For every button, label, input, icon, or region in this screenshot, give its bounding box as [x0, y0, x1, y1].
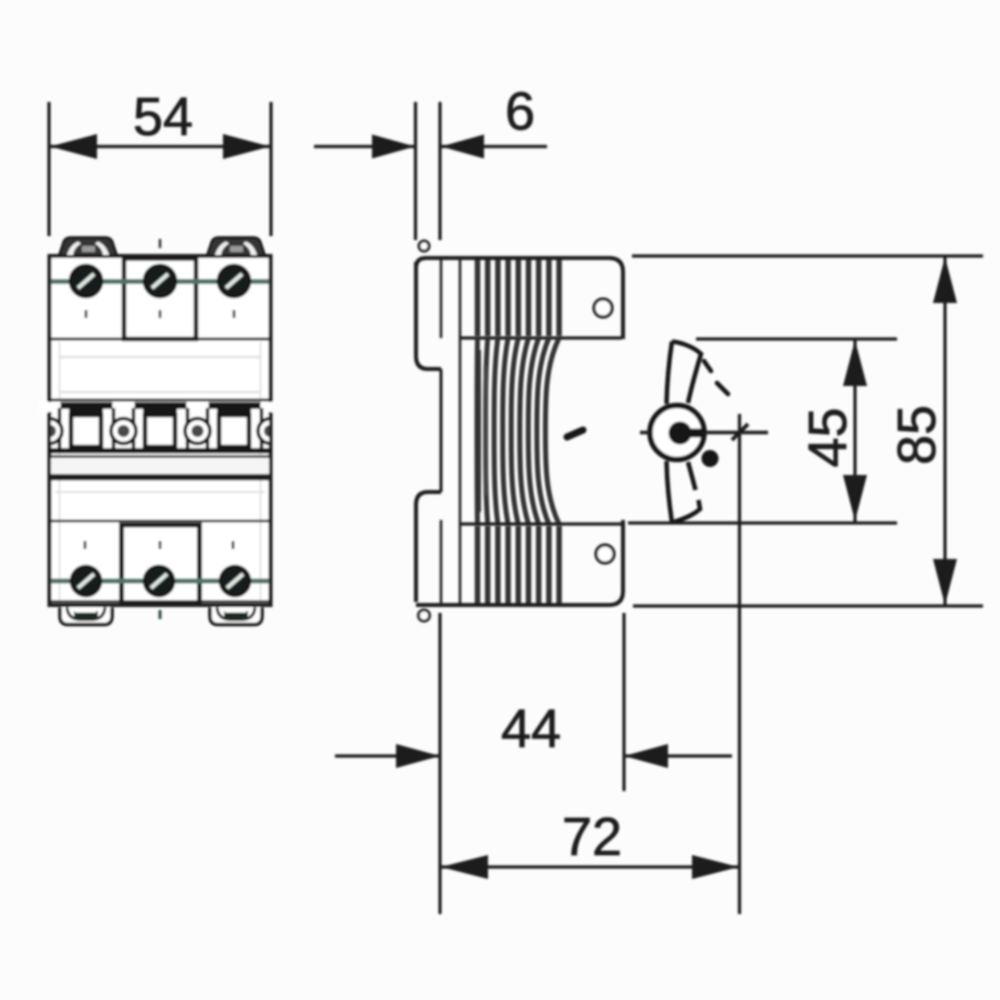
pole divider circle 2: [185, 419, 210, 444]
svg-text:45: 45: [798, 407, 858, 467]
extension line left of 6: [414, 102, 417, 240]
breaker front-view body: [50, 256, 271, 605]
faint inner side lines: [59, 342, 61, 600]
arrowhead left 72: [441, 855, 488, 879]
DIN clip pin bottom: [419, 610, 430, 621]
terminal screw bottom-middle: [144, 566, 174, 596]
rivet hole bottom: [596, 545, 614, 563]
toggle pivot: [650, 406, 704, 460]
extension line right of 54: [269, 102, 272, 236]
arrowhead right 72: [692, 855, 739, 879]
body back edge lower with rail hook: [416, 492, 441, 602]
divider bars and circles in toggle band: [60, 408, 262, 452]
extension line left of 44 and 72: [438, 613, 441, 914]
toggle handle 2: [145, 415, 175, 447]
slot shelf upper: [460, 336, 622, 339]
inner wall line lower: [440, 520, 443, 603]
terminal screw bottom-left: [71, 566, 101, 596]
toggle handle 1: [71, 415, 101, 447]
marking dash on face: [567, 430, 583, 437]
arrowhead left 54: [50, 134, 97, 159]
green ticks below top screws: [85, 310, 88, 318]
pivot centerline left stub: [640, 431, 651, 435]
toggle handle 2 cap: [143, 402, 177, 416]
pivot centerline right: [703, 431, 768, 435]
inner wall line upper: [440, 259, 443, 338]
pole divider circle right edge: [258, 419, 283, 444]
face plate left edge: [459, 259, 462, 604]
middle pole top terminal block: [124, 259, 196, 340]
bottom clip left: [60, 608, 112, 625]
svg-text:72: 72: [562, 807, 622, 867]
arrowhead right 54: [223, 134, 270, 159]
arrowhead bottom 85: [933, 559, 957, 605]
terminal screw top-middle: [144, 265, 176, 297]
lower vent slots: [478, 526, 560, 603]
svg-text:85: 85: [887, 405, 947, 465]
pole divider circle 1: [111, 419, 136, 444]
svg-text:44: 44: [501, 699, 561, 759]
upper vent slots: [478, 260, 560, 336]
toggle handle 1 cap: [69, 402, 103, 416]
arrowhead pointing left at 44: [624, 744, 668, 768]
thick label-window bar: [50, 474, 271, 481]
face band top line: [49, 399, 271, 402]
extension line bottom of 45: [628, 521, 897, 524]
pole divider circle left edge: [37, 419, 283, 444]
slot bunch shading: [475, 350, 481, 512]
extension line top of 45: [696, 337, 897, 340]
dimension line 54: [49, 145, 271, 148]
lever phantom dashes upper: [704, 361, 711, 371]
dimension tail right of 44: [624, 754, 732, 757]
body bottom edge: [416, 520, 623, 605]
toggle handle 3: [219, 415, 249, 447]
green ticks above bottom screws: [84, 541, 87, 549]
dimension tail left: [314, 145, 415, 148]
dimension line 85: [943, 256, 946, 606]
bottom clip right: [210, 608, 262, 625]
extension line bottom of 85: [633, 604, 983, 607]
toggle lever upper blade: [667, 342, 673, 405]
extension line right of 72 (lever tip): [738, 414, 741, 914]
toggle lever lower blade: [667, 461, 673, 523]
bottom cells bottom line: [49, 600, 271, 603]
rivet hole top: [594, 299, 612, 317]
top mounting clip right: [207, 238, 265, 257]
DIN clip pin top: [419, 241, 429, 251]
DIN channel floor: [440, 369, 443, 492]
dimension tail right: [441, 145, 547, 148]
extension line left of 54: [47, 102, 50, 236]
faint inner panel lines: [60, 356, 260, 358]
center tick below body: [159, 610, 162, 619]
teal center line bottom row: [51, 579, 269, 584]
svg-text:54: 54: [133, 87, 193, 147]
dimension line 45: [853, 339, 856, 522]
terminal screw bottom-right: [220, 566, 250, 596]
curved vent slots: [477, 338, 559, 524]
body back edge upper with rail hook: [416, 262, 441, 369]
arrowhead top 45: [843, 340, 867, 386]
toggle band bottom stripe: [50, 448, 271, 454]
arrowhead bottom 45: [843, 475, 867, 521]
slot shelf lower: [460, 522, 622, 525]
lever root pin: [702, 450, 719, 467]
middle pole bottom terminal block: [122, 525, 200, 604]
line below band: [49, 455, 271, 458]
terminal screw top-left: [70, 265, 102, 297]
oblique tick at crosshair: [732, 424, 748, 440]
center tick above body: [159, 239, 162, 248]
arrowhead pointing right at 44: [396, 744, 440, 768]
arrowhead pointing right at 6: [372, 135, 415, 159]
toggle band top stripe: [50, 402, 271, 409]
arrowhead top 85: [933, 257, 957, 303]
terminal screw top-right: [218, 265, 250, 297]
top terminal row bottom line: [49, 338, 271, 341]
teal center line top row: [51, 279, 269, 284]
light strip: [51, 458, 269, 474]
top mounting clip left: [59, 238, 117, 257]
toggle handle 3 cap: [217, 402, 251, 416]
extension line top of 85: [632, 254, 983, 257]
body top edge: [416, 258, 623, 339]
dimension line 72: [440, 865, 740, 868]
faint line: [55, 491, 265, 493]
svg-text:6: 6: [505, 82, 535, 142]
extension line right of 44: [622, 613, 625, 791]
arrowhead pointing left at 6: [441, 135, 484, 159]
extension line right of 6: [438, 102, 441, 240]
dimension tail left of 44: [335, 754, 440, 757]
lower face line: [49, 520, 271, 523]
